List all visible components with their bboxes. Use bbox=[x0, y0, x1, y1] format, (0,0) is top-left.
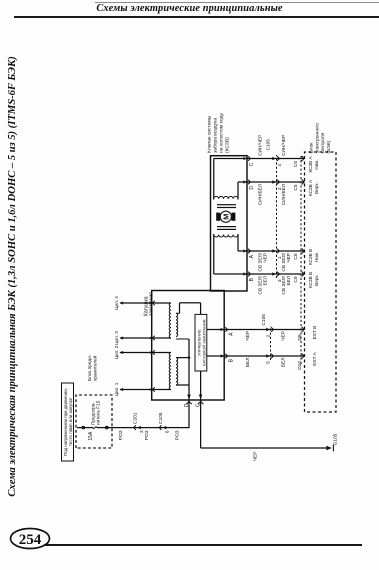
svg-text:хранителей: хранителей bbox=[92, 355, 98, 381]
svg-text:D10: D10 bbox=[297, 361, 303, 370]
svg-text:C6: C6 bbox=[293, 161, 299, 167]
svg-text:тесте ламп или запуске: тесте ламп или запуске bbox=[68, 397, 73, 446]
svg-text:БЕЛ: БЕЛ bbox=[286, 276, 292, 286]
svg-text:6: 6 bbox=[165, 430, 171, 433]
svg-text:Цил. 1: Цил. 1 bbox=[114, 382, 119, 396]
svg-text:Блок: Блок bbox=[309, 142, 315, 154]
svg-text:Верх.: Верх. bbox=[314, 274, 319, 286]
svg-text:ЧЕР: ЧЕР bbox=[262, 253, 268, 263]
svg-text:нитель F15: нитель F15 bbox=[96, 400, 101, 425]
svg-text:EST B: EST B bbox=[312, 326, 318, 340]
svg-text:КСЗВ А: КСЗВ А bbox=[308, 156, 313, 173]
svg-text:КСЗВ В: КСЗВ В bbox=[308, 272, 313, 288]
svg-text:Цил. 2: Цил. 2 bbox=[114, 345, 119, 359]
svg-text:(КСЗВ): (КСЗВ) bbox=[224, 137, 230, 153]
svg-text:РОЗ: РОЗ bbox=[118, 430, 124, 440]
svg-text:электронного: электронного bbox=[315, 123, 320, 154]
svg-text:Верх.: Верх. bbox=[314, 182, 319, 194]
svg-text:C8: C8 bbox=[293, 253, 299, 259]
svg-text:КСЗВ А: КСЗВ А bbox=[308, 179, 313, 196]
svg-text:5: 5 bbox=[265, 361, 271, 364]
svg-text:C: C bbox=[249, 162, 255, 166]
svg-text:B: B bbox=[229, 358, 235, 362]
svg-text:254: 254 bbox=[19, 532, 42, 548]
svg-text:D: D bbox=[184, 403, 190, 407]
svg-text:Ниж.: Ниж. bbox=[314, 252, 319, 262]
svg-text:C5: C5 bbox=[293, 184, 299, 190]
svg-text:(БЭК): (БЭК) bbox=[326, 140, 332, 153]
svg-text:Блок предо-: Блок предо- bbox=[87, 354, 92, 381]
svg-text:РОЗ: РОЗ bbox=[175, 430, 181, 440]
svg-text:C105: C105 bbox=[261, 314, 267, 326]
svg-text:Цил. 3: Цил. 3 bbox=[114, 331, 119, 345]
svg-text:забора воздуха: забора воздуха bbox=[212, 118, 218, 153]
svg-text:БЕЛ: БЕЛ bbox=[281, 358, 287, 368]
svg-text:Цил. 4: Цил. 4 bbox=[114, 296, 119, 310]
svg-text:15А: 15А bbox=[88, 431, 94, 441]
svg-text:G105: G105 bbox=[333, 433, 339, 445]
svg-text:на холостом ходу: на холостом ходу bbox=[219, 113, 224, 153]
svg-text:БЕЛ: БЕЛ bbox=[245, 358, 251, 368]
svg-text:A: A bbox=[249, 254, 255, 258]
svg-text:ЧЕР: ЧЕР bbox=[286, 253, 292, 263]
svg-text:Ниж.: Ниж. bbox=[314, 159, 319, 169]
svg-text:БЕЛ: БЕЛ bbox=[262, 276, 268, 286]
svg-text:M: M bbox=[222, 214, 231, 220]
svg-text:СИН/БЕЛ: СИН/БЕЛ bbox=[281, 184, 287, 205]
svg-text:4: 4 bbox=[277, 164, 283, 167]
svg-text:ЧЕР: ЧЕР bbox=[281, 331, 287, 341]
svg-text:C9: C9 bbox=[293, 276, 299, 282]
svg-text:B: B bbox=[249, 277, 255, 281]
svg-text:D: D bbox=[249, 186, 255, 190]
svg-text:Клапан системы: Клапан системы bbox=[206, 115, 212, 153]
svg-text:контроля: контроля bbox=[321, 132, 326, 153]
svg-text:КСЗВ В: КСЗВ В bbox=[308, 249, 313, 265]
svg-text:A: A bbox=[229, 332, 235, 336]
svg-text:СИН/БЕЛ: СИН/БЕЛ bbox=[258, 184, 264, 205]
svg-text:РОЗ: РОЗ bbox=[144, 430, 150, 440]
svg-text:C105: C105 bbox=[266, 139, 272, 151]
svg-text:C201: C201 bbox=[133, 412, 139, 424]
svg-text:ЧЕР: ЧЕР bbox=[253, 452, 259, 462]
svg-text:КАТУШКОЙ ЗАЖИГАНИЯ: КАТУШКОЙ ЗАЖИГАНИЯ bbox=[202, 319, 207, 365]
svg-text:EST A: EST A bbox=[312, 351, 318, 365]
svg-text:C105: C105 bbox=[158, 412, 164, 424]
svg-text:СИН/ЧЕР: СИН/ЧЕР bbox=[258, 135, 264, 156]
svg-text:ЧЕР: ЧЕР bbox=[245, 331, 251, 341]
svg-text:СИН/ЧЕР: СИН/ЧЕР bbox=[281, 135, 287, 156]
svg-text:D9: D9 bbox=[297, 334, 303, 340]
